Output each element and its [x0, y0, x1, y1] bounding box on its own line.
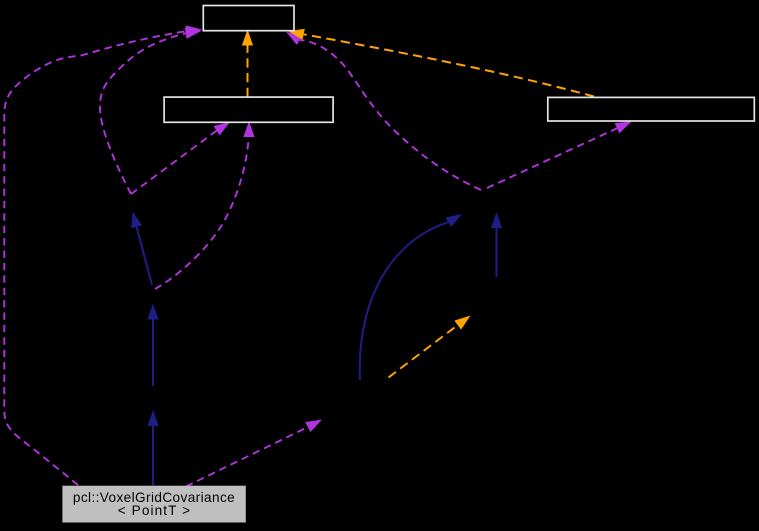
svg-text:< PointT >: < PointT > [118, 503, 191, 518]
